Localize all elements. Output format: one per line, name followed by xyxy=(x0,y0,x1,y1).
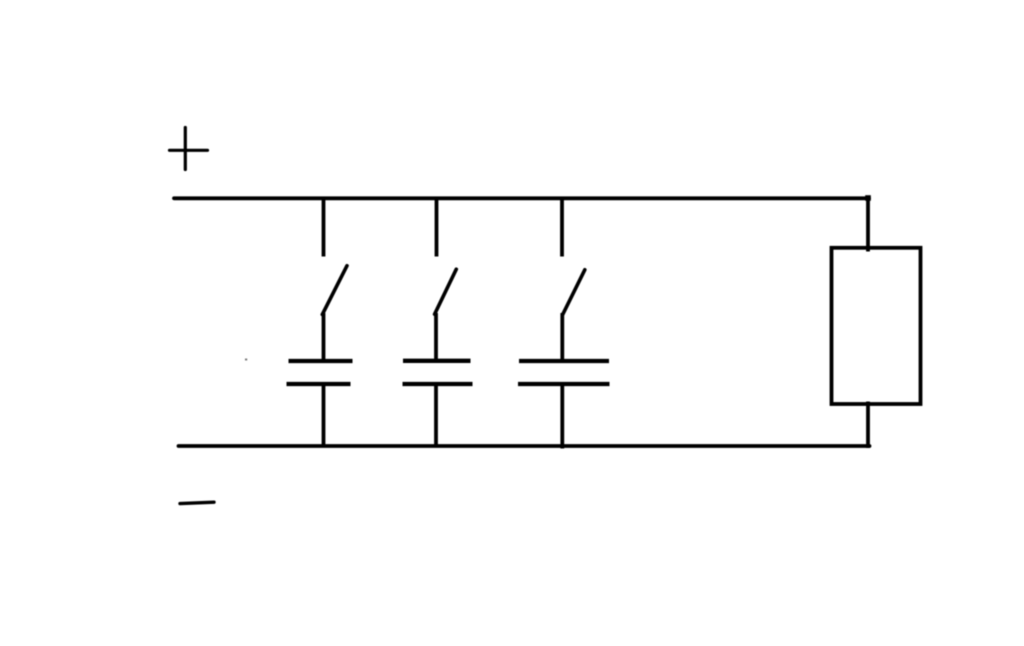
wire capacitor C2 to bottom rail xyxy=(434,384,438,446)
wire branch 3 stub from top rail xyxy=(560,198,564,257)
wire branch 2 stub from top rail xyxy=(435,198,439,257)
wire load resistor to bottom rail xyxy=(866,402,870,449)
node junction top rail / load wire xyxy=(865,195,871,201)
wire branch 1 stub from top rail xyxy=(322,198,326,257)
minus terminal label xyxy=(180,502,214,503)
wire capacitor C3 to bottom rail xyxy=(560,384,564,449)
switch S3 blade xyxy=(563,270,585,315)
capacitor C3 top plate xyxy=(519,359,609,363)
wire top rail to load resistor xyxy=(866,196,870,252)
wire switch S2 to capacitor C2 xyxy=(434,313,438,361)
switch S1 blade xyxy=(322,266,347,315)
wire bottom negative rail xyxy=(179,444,870,448)
capacitor C2 top plate xyxy=(403,359,471,363)
capacitor C3 bottom plate xyxy=(518,382,610,386)
stray mark dot xyxy=(245,359,247,361)
capacitor C1 bottom plate xyxy=(287,382,351,386)
wire top positive rail xyxy=(174,196,869,200)
wire capacitor C1 to bottom rail xyxy=(322,384,326,446)
plus terminal label xyxy=(170,128,208,170)
switch S2 blade xyxy=(435,269,457,314)
capacitor C1 top plate xyxy=(289,359,353,363)
wire switch S1 to capacitor C1 xyxy=(322,313,326,361)
capacitor C2 bottom plate xyxy=(403,382,473,386)
wire switch S3 to capacitor C3 xyxy=(560,313,564,361)
resistor R1 load box xyxy=(832,248,921,404)
